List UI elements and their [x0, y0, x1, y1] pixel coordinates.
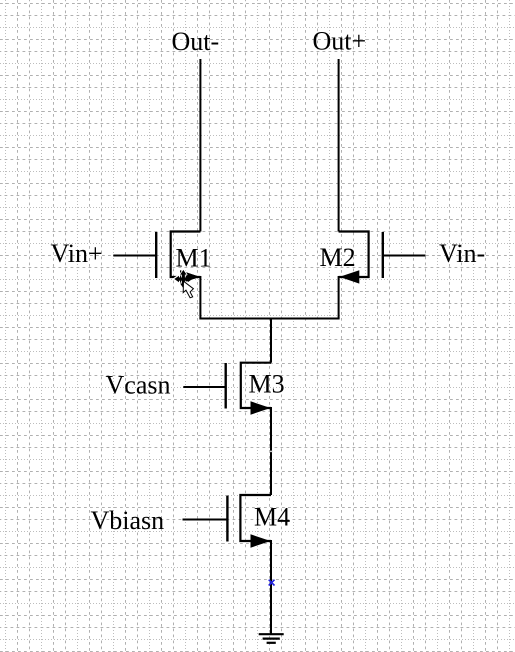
wire: M3 source to M4 drain: [270, 407, 272, 495]
wire: Vin- gate lead: [383, 255, 426, 257]
transistor M1: [156, 232, 200, 284]
svg-text:Vcasn: Vcasn: [106, 371, 171, 400]
transistor M4: [227, 495, 271, 548]
svg-text:Vbiasn: Vbiasn: [91, 506, 165, 535]
svg-text:M4: M4: [254, 503, 290, 532]
wire: M2 source down: [338, 276, 340, 319]
wire: M1 source down: [199, 276, 201, 319]
svg-text:M2: M2: [320, 243, 356, 272]
wire: Out+ drain lead: [338, 59, 340, 232]
svg-text:M3: M3: [249, 370, 285, 399]
svg-text:M1: M1: [176, 244, 212, 273]
wire: common source rail: [199, 318, 339, 320]
svg-text:Out+: Out+: [313, 27, 367, 56]
wire: M4 source to ground: [270, 540, 272, 634]
wire: Vbiasn gate lead: [183, 519, 228, 521]
ground: [259, 634, 284, 643]
wire: Out- drain lead: [199, 59, 201, 232]
mouse cursor (move cross + pointer): [174, 270, 200, 298]
transistor M3: [226, 363, 271, 415]
node marker: blue x on ground wire: [269, 580, 275, 586]
svg-text:Out-: Out-: [172, 27, 220, 56]
wire: Vcasn gate lead: [183, 386, 225, 388]
svg-text:Vin-: Vin-: [439, 239, 485, 268]
wire: tail node to M3 drain: [270, 319, 272, 363]
wire: Vin+ gate lead: [113, 255, 156, 257]
transistor M2: [339, 232, 383, 284]
svg-text:Vin+: Vin+: [51, 239, 103, 268]
